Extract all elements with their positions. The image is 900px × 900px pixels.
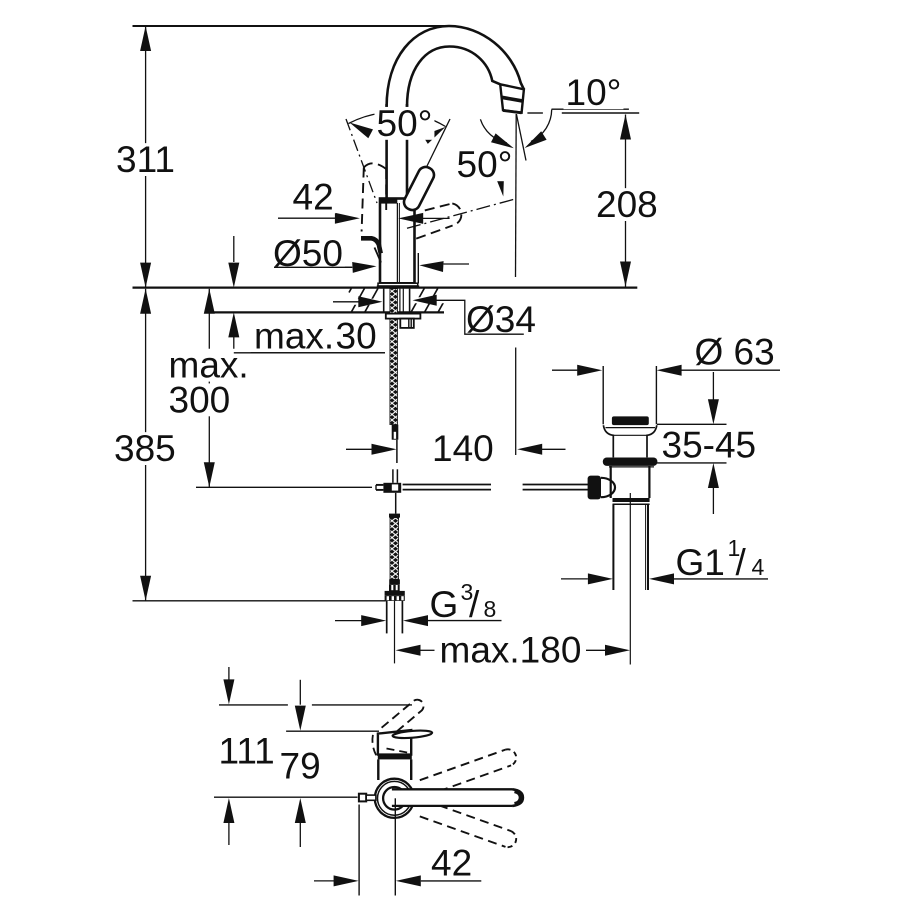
drain lever ball joint: [601, 478, 615, 497]
svg-text:300: 300: [169, 379, 231, 420]
svg-text:140: 140: [432, 428, 494, 469]
svg-text:42: 42: [293, 176, 334, 217]
body top cap: [381, 199, 398, 203]
drain centerline: [629, 493, 631, 665]
side view body sides: [377, 759, 379, 780]
dashed cover outline (alternate): [372, 735, 377, 758]
dimension dia 63 line and arrows: [552, 369, 577, 371]
svg-text:max.180: max.180: [440, 630, 582, 671]
threaded mounting stud lines: [399, 289, 401, 314]
G1 1/4 dimension arrows and underline: [561, 578, 588, 580]
spout gooseneck inner curve: [407, 47, 500, 108]
spout vertical extension line from outlet: [515, 114, 518, 277]
G3/8 collar: [385, 591, 405, 595]
diameter 50 leader line and arrows: [274, 266, 352, 268]
svg-text:208: 208: [596, 184, 658, 225]
body inner seam lines: [396, 203, 398, 283]
arrowhead on right leg: [423, 127, 446, 144]
right extension line for dia 50: [417, 253, 419, 284]
faucet spout riser tube: [385, 104, 388, 198]
10 deg reference line (horizontal): [552, 108, 629, 110]
svg-text:385: 385: [114, 428, 176, 469]
dimension 42 (handle) line and arrows: [278, 217, 335, 219]
svg-text:50°: 50°: [377, 103, 433, 144]
50 deg handle swing: solid leg along solid lever axis: [427, 119, 450, 166]
10 deg arc with arrowhead: [531, 110, 552, 142]
countertop bottom line: [214, 311, 444, 313]
G3/8 thread tails: [386, 601, 388, 634]
dimension 111: outside arrows: [228, 667, 230, 680]
spout dashed swing lower position: [420, 816, 506, 847]
svg-text:max.: max.: [254, 315, 334, 356]
tube from hose to tee: [396, 440, 398, 463]
joint band: [378, 755, 412, 760]
svg-text:30: 30: [336, 315, 377, 356]
drain plug cap: [612, 416, 649, 425]
handle paddle (side, solid): [392, 729, 432, 739]
spout outlet / aerator: [500, 84, 524, 112]
side view cartridge cover: [378, 730, 411, 755]
reference line for max.300 dim (supply level): [196, 486, 372, 488]
dimension max.180 arrows: [396, 645, 421, 656]
svg-text:111: 111: [219, 730, 275, 771]
faucet axis extension line: [394, 601, 396, 664]
side view handle (dashed raised position): [382, 700, 424, 738]
lever axis dash-dot line (right 50 deg leg): [407, 199, 515, 228]
spout tube (solid position): [393, 791, 513, 806]
mounting washer: [386, 314, 421, 319]
svg-text:Ø50: Ø50: [273, 233, 343, 274]
svg-text:4: 4: [752, 554, 765, 580]
countertop top surface line: [133, 287, 638, 289]
drain tailpipe: [612, 504, 614, 590]
drain flange: [603, 458, 658, 466]
50 deg handle swing arc: [349, 112, 446, 126]
faucet axis extension (side view): [394, 798, 396, 895]
dimension 208 vertical line with arrows: [625, 115, 627, 287]
dimension 35-45 vertical line with arrows: [712, 372, 714, 400]
handle lever (solid, tilted right): [401, 164, 436, 212]
drain body joint: [613, 498, 650, 502]
svg-text:Ø 63: Ø 63: [695, 332, 775, 373]
max.30 label underline: [234, 352, 385, 354]
dimension 42 (spout offset) arrows and underline: [314, 880, 334, 882]
counter hole edges: [383, 289, 385, 312]
svg-text:10°: 10°: [566, 72, 622, 113]
dimension 311 vertical line with arrows: [145, 26, 147, 288]
tube below tee: [395, 493, 397, 514]
svg-text:/: /: [469, 584, 480, 625]
dimension 140 arrows: [346, 448, 372, 450]
spout pivot ring: [378, 781, 412, 815]
side view handle-top reference line (79): [286, 730, 379, 732]
pop-up rod tee: vertical stub: [392, 469, 394, 483]
spout flow direction line (10 deg): [516, 114, 526, 161]
spout holder hook on body left: [361, 238, 381, 253]
dia 63 extension lines: [602, 366, 604, 424]
flexible hose (braided, lower): [390, 518, 399, 580]
svg-text:50°: 50°: [457, 144, 513, 185]
countertop hatching left of hole: [349, 288, 351, 292]
G3/8 crimp sleeve: [389, 579, 400, 584]
lower hose top cap: [389, 514, 400, 518]
countertop hatching right of hole: [411, 288, 424, 312]
mounting nut: [400, 319, 414, 328]
flexible supply hose (braided, upper): [390, 289, 398, 425]
arrowhead on left leg: [350, 123, 374, 139]
spout tube end cap: [513, 789, 523, 806]
dimension max.30 vertical line, outside arrows: [233, 236, 235, 262]
spout pivot outer circle: [375, 779, 414, 818]
faucet body: [380, 199, 415, 284]
spout dashed swing upper position: [420, 750, 506, 781]
50 deg spout swivel arc with arrowhead: [480, 119, 507, 143]
arrowhead pointing at lever axis line: [494, 172, 504, 197]
35-45 extension lines: [657, 423, 727, 425]
svg-text:/: /: [736, 542, 747, 583]
spout pivot inner circle: [383, 787, 406, 810]
svg-text:G1: G1: [676, 542, 725, 583]
dimension 385 vertical line with arrows: [145, 289, 147, 601]
208 top reference line at outlet level: [527, 112, 543, 114]
extension line from nipple: [358, 805, 360, 896]
50 deg handle swing: dash-dot leg through dashed lever axis: [346, 119, 377, 203]
drain body: [610, 466, 612, 498]
svg-text:311: 311: [116, 139, 175, 180]
spout gooseneck outer curve: [387, 26, 524, 107]
pop-up rod (horizontal, with break): [403, 484, 491, 486]
lower reference line for 385 dim (G3/8 end level): [133, 600, 386, 602]
top reference line (spout apex level): [133, 25, 452, 27]
svg-text:8: 8: [484, 596, 497, 622]
140 extension line (outlet projection): [515, 348, 517, 456]
drain lever socket: [588, 476, 601, 500]
svg-text:G: G: [430, 584, 459, 625]
dia 34 leader and bracket: [333, 299, 382, 305]
G3/8 dimension arrows and underline: [335, 620, 362, 622]
svg-text:79: 79: [280, 745, 321, 786]
svg-text:42: 42: [431, 842, 472, 883]
tee left stub: [376, 484, 383, 486]
pop-up rod tee block: [383, 483, 401, 493]
side view left nipple: [359, 794, 366, 802]
drain flared neck: [603, 425, 613, 457]
svg-text:35-45: 35-45: [662, 425, 757, 466]
handle lever (dashed lowered position, right): [416, 226, 452, 239]
body base flange: [378, 283, 418, 286]
handle lever (dashed alternate position, left): [362, 168, 364, 232]
side view spout axis reference line: [214, 796, 358, 798]
side view top reference line: [219, 704, 288, 706]
dashed paddle edge inside cover: [387, 749, 410, 754]
hose end fitting: [392, 425, 399, 431]
dimension 79: outside arrows: [299, 680, 301, 705]
dimension max.300 vertical line with arrows: [208, 289, 210, 488]
